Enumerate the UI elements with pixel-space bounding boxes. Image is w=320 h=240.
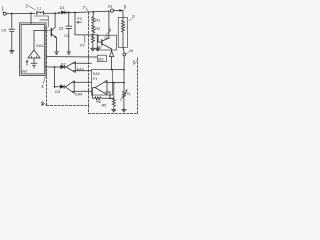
capacitor C0 — [1, 14, 15, 51]
ground (Q1 emitter) — [55, 52, 59, 54]
op-amp F1 triangle — [93, 80, 107, 98]
op-amp EA4 — [65, 81, 91, 97]
block KA2 box — [92, 69, 113, 95]
node junction C0 — [11, 13, 13, 15]
svg-text:R4: R4 — [125, 92, 130, 96]
terminal 1 — [1, 6, 6, 16]
resistor R3 (label Tr3) — [80, 35, 95, 48]
dashed box 5 left edge — [46, 27, 48, 106]
diode D2 — [61, 62, 66, 68]
svg-text:R2: R2 — [95, 27, 100, 31]
svg-text:F2: F2 — [78, 17, 82, 21]
svg-text:R5: R5 — [102, 104, 107, 108]
op-amp EA3 — [66, 62, 91, 73]
label 9 with leader — [105, 28, 111, 36]
ground (base branch) — [95, 48, 99, 50]
box 6 (load) — [118, 17, 127, 47]
svg-text:Buf: Buf — [98, 57, 103, 61]
label 8 — [124, 4, 127, 10]
node junction box4 feed — [30, 12, 32, 14]
box 4 (error amp unit, thick border) — [20, 23, 46, 76]
ground (R4) — [122, 109, 126, 111]
label 6 with leader — [129, 13, 135, 20]
box 9 — [97, 35, 116, 50]
resistor R4 potentiometer — [120, 90, 130, 109]
svg-text:D1: D1 — [60, 6, 65, 10]
dashed box 5 bottom jog — [88, 106, 90, 114]
svg-text:R6: R6 — [96, 100, 101, 104]
wire box 6 to 2b — [123, 47, 124, 53]
resistor R6 — [93, 97, 114, 104]
terminal 2a — [108, 4, 114, 13]
diode D1 — [58, 6, 67, 14]
svg-text:C0: C0 — [1, 28, 7, 33]
output sense rail — [123, 56, 125, 91]
label 5 with leader — [133, 59, 137, 64]
ground (C0) — [10, 51, 14, 53]
wire bus branch x75 — [75, 13, 93, 35]
svg-text:2b: 2b — [129, 48, 134, 53]
input wires KA2 — [107, 82, 124, 84]
Buf block — [97, 55, 106, 61]
resistor R2 — [92, 23, 101, 35]
wire 2a to box 6 with arrow — [114, 10, 123, 17]
dotted base lead from box 4 to Q1 — [45, 30, 51, 32]
label 7 with leader — [83, 5, 89, 12]
output rail junction wire — [112, 69, 124, 71]
wire bus top left — [6, 13, 35, 15]
op-amp EA1 — [28, 30, 45, 58]
wire D2 row — [45, 66, 60, 68]
label F2 with arrow — [77, 17, 82, 23]
dashed box 5 right edge — [137, 58, 139, 114]
wire down to box 4 — [30, 13, 32, 23]
svg-text:2a: 2a — [108, 4, 113, 9]
buffer arrow (emitter follower) — [110, 51, 114, 57]
inductor L1 — [34, 7, 48, 27]
feedback wire to Buf — [47, 56, 98, 58]
svg-text:EA1: EA1 — [36, 44, 43, 48]
wire R2/R3 tap to Q2 base — [93, 35, 102, 42]
svg-text:Vref: Vref — [21, 69, 27, 73]
resistor R1 — [92, 11, 101, 23]
svg-text:D3: D3 — [55, 90, 60, 94]
terminal 2b — [123, 48, 134, 56]
label 3 with leader — [26, 4, 35, 10]
svg-text:Tr3: Tr3 — [80, 44, 85, 48]
label 4 with leader — [41, 76, 45, 88]
capacitor C1 — [64, 12, 72, 51]
ground (R3) — [91, 48, 95, 50]
dashed box 5 bottom left — [47, 105, 89, 107]
asterisk footnote — [41, 102, 47, 106]
node junction C1 — [68, 12, 70, 14]
input arrow inside box 4 — [26, 60, 28, 65]
wire bus top middle — [43, 11, 107, 13]
svg-text:Rb: Rb — [97, 45, 101, 49]
ground (C1) — [67, 52, 71, 54]
svg-text:L1: L1 — [37, 7, 41, 11]
wire down to D3 row — [55, 67, 61, 87]
reference Vref — [21, 58, 37, 73]
dashed block 7 boundary — [88, 12, 90, 105]
svg-text:KA2: KA2 — [93, 72, 100, 76]
svg-text:C1: C1 — [64, 34, 69, 38]
diode D3 — [55, 85, 65, 94]
transistor Q1 — [51, 12, 63, 51]
resistor in box 6 — [122, 17, 125, 47]
svg-text:F1: F1 — [93, 77, 97, 81]
svg-text:Q1: Q1 — [59, 27, 64, 31]
svg-text:R1: R1 — [95, 18, 100, 22]
svg-text:EA4: EA4 — [75, 92, 82, 96]
dashed box 5 bottom right — [89, 113, 138, 115]
transistor Q2 — [102, 11, 112, 51]
ground (R5) — [112, 109, 116, 111]
resistor R5 — [102, 83, 116, 110]
node junction R2/R3 — [92, 34, 94, 36]
